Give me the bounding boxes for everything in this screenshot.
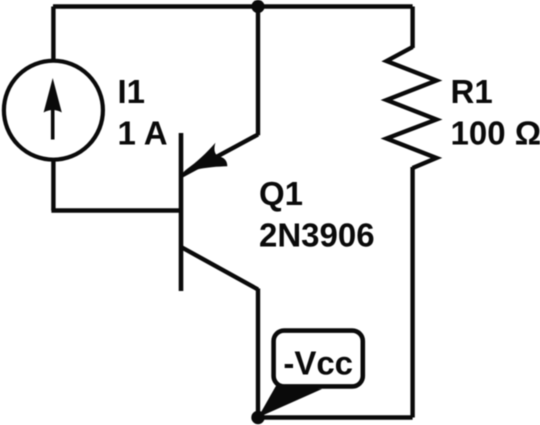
svg-text:100 Ω: 100 Ω bbox=[451, 115, 540, 152]
svg-text:Q1: Q1 bbox=[259, 175, 303, 212]
svg-text:2N3906: 2N3906 bbox=[259, 217, 375, 254]
net flag -Vcc : callout box bbox=[274, 331, 363, 387]
wire base net bbox=[51, 208, 180, 212]
net flag -Vcc : callout tail bbox=[258, 384, 322, 418]
svg-text:-Vcc: -Vcc bbox=[283, 345, 353, 382]
wire collector vertical bbox=[256, 289, 260, 418]
wire right vertical lower (R1 to bottom) bbox=[410, 167, 414, 418]
transistor Q1 (PNP 2N3906) bbox=[181, 133, 258, 291]
svg-text:I1: I1 bbox=[118, 73, 146, 110]
resistor R1 bbox=[387, 47, 437, 168]
svg-text:R1: R1 bbox=[451, 73, 493, 110]
current source I1 bbox=[4, 61, 103, 160]
wire current source bottom bbox=[51, 160, 55, 211]
wire from top net down to current source bbox=[51, 7, 55, 62]
node top junction bbox=[251, 0, 264, 13]
node bottom junction bbox=[251, 411, 264, 424]
wire right vertical upper (top net to R1) bbox=[410, 7, 414, 49]
wire bottom net bbox=[258, 415, 413, 419]
svg-text:1 A: 1 A bbox=[118, 115, 168, 152]
wire top net (source to R1) bbox=[53, 4, 413, 8]
wire emitter vertical bbox=[256, 7, 260, 136]
